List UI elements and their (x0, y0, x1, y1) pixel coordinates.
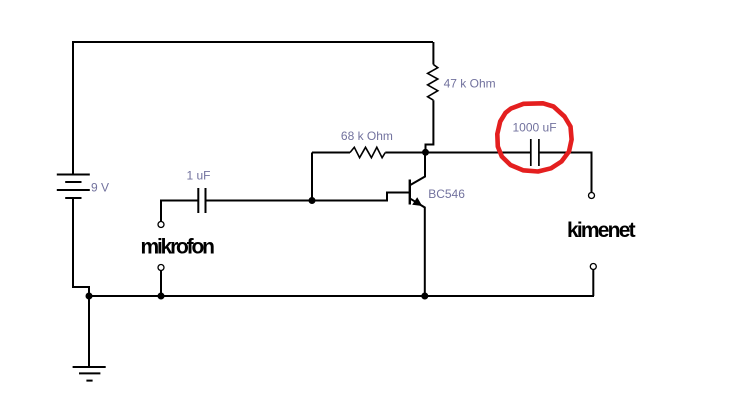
red annotation circle around 1000 uF (497, 103, 571, 171)
svg-text:68 k Ohm: 68 k Ohm (341, 129, 393, 143)
wire battery - down with jog to bottom rail (73, 198, 89, 296)
capacitor 1 uF plates (198, 188, 205, 213)
wire mikrofon bottom terminal to bottom rail (160, 271, 162, 297)
wire ground stem (88, 296, 90, 367)
ground symbol (73, 367, 106, 381)
svg-text:mikrofon: mikrofon (141, 236, 215, 259)
capacitor 1000 uF plates (531, 139, 539, 166)
wire output cap to kimenet top terminal (539, 153, 591, 193)
svg-text:kimenet: kimenet (567, 219, 636, 242)
resistor 68 k Ohm (350, 147, 385, 157)
junction node base (309, 197, 316, 204)
wire bottom rail (89, 295, 594, 297)
wire mikrofon top terminal to coupling cap (161, 201, 198, 222)
svg-text:9 V: 9 V (91, 181, 109, 195)
wire base lead into transistor (312, 193, 409, 201)
svg-text:1000 uF: 1000 uF (513, 121, 557, 135)
wire kimenet bottom terminal to bottom rail (592, 270, 595, 297)
resistor 47 k Ohm (428, 65, 438, 101)
terminal kimenet top (589, 193, 595, 199)
wire collector lead of transistor (410, 153, 425, 186)
terminal mikrofon top (158, 222, 164, 228)
terminal kimenet bottom (590, 264, 596, 270)
wire 68k left lead (312, 152, 350, 154)
svg-text:BC546: BC546 (428, 187, 465, 201)
wire 68k right lead to collector node (385, 152, 425, 154)
wire collector node to output cap (426, 152, 531, 154)
transistor Q1 emitter arrow (412, 197, 422, 206)
wire left vertical battery + (72, 41, 74, 174)
wire 47k bottom lead with jog to collector node (426, 100, 434, 152)
junction node mikrofon-rail (158, 293, 165, 300)
junction node battery-rail (86, 293, 93, 300)
junction node emitter-rail (421, 293, 428, 300)
wire coupling cap to base node (206, 200, 312, 202)
wire emitter lead of transistor down to rail (410, 199, 425, 296)
battery 9V plates (57, 175, 90, 199)
wire 47k top lead (432, 42, 434, 65)
svg-text:47 k Ohm: 47 k Ohm (444, 77, 496, 91)
terminal mikrofon bottom (158, 265, 164, 271)
junction node collector (422, 149, 429, 156)
wire top rail from battery + to 47k resistor (73, 41, 433, 43)
transistor Q1 base bar (409, 180, 411, 205)
wire base node up to 68k (311, 153, 313, 201)
svg-text:1 uF: 1 uF (187, 169, 211, 183)
